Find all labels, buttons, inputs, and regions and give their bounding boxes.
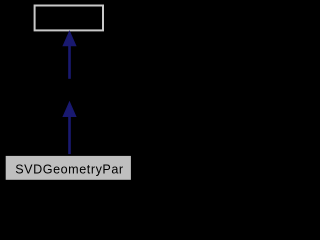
node SVDGeometryPar (current class, grey filled) bbox=[6, 156, 131, 180]
inheritance arrow 1 (to base class) bbox=[63, 31, 76, 79]
inheritance arrow 2 (to hidden middle class) bbox=[63, 102, 76, 154]
svg-text:SVDGeometryPar: SVDGeometryPar bbox=[15, 163, 123, 177]
base class node (undocumented, grey border, empty) bbox=[35, 6, 103, 31]
